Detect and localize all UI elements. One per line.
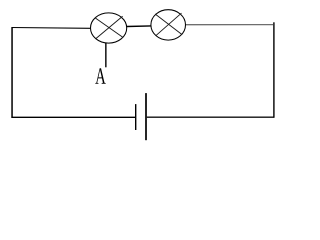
wire between lamps [127, 25, 151, 28]
wire left vertical [11, 27, 13, 118]
wire right vertical [273, 22, 275, 117]
wire top-left horizontal [12, 27, 91, 30]
lamp L1 cross [95, 16, 124, 38]
wire bottom-left horizontal [11, 116, 135, 118]
battery positive plate (long) [145, 93, 147, 140]
lamp L2 circle [151, 10, 186, 40]
wire bottom-right horizontal [147, 116, 275, 118]
node A label [95, 68, 105, 83]
wire top-right horizontal [186, 24, 274, 26]
battery negative plate (short) [135, 104, 137, 130]
wire stub to node A [105, 43, 107, 68]
lamp L1 circle [91, 13, 127, 43]
lamp L2 cross [155, 13, 182, 36]
